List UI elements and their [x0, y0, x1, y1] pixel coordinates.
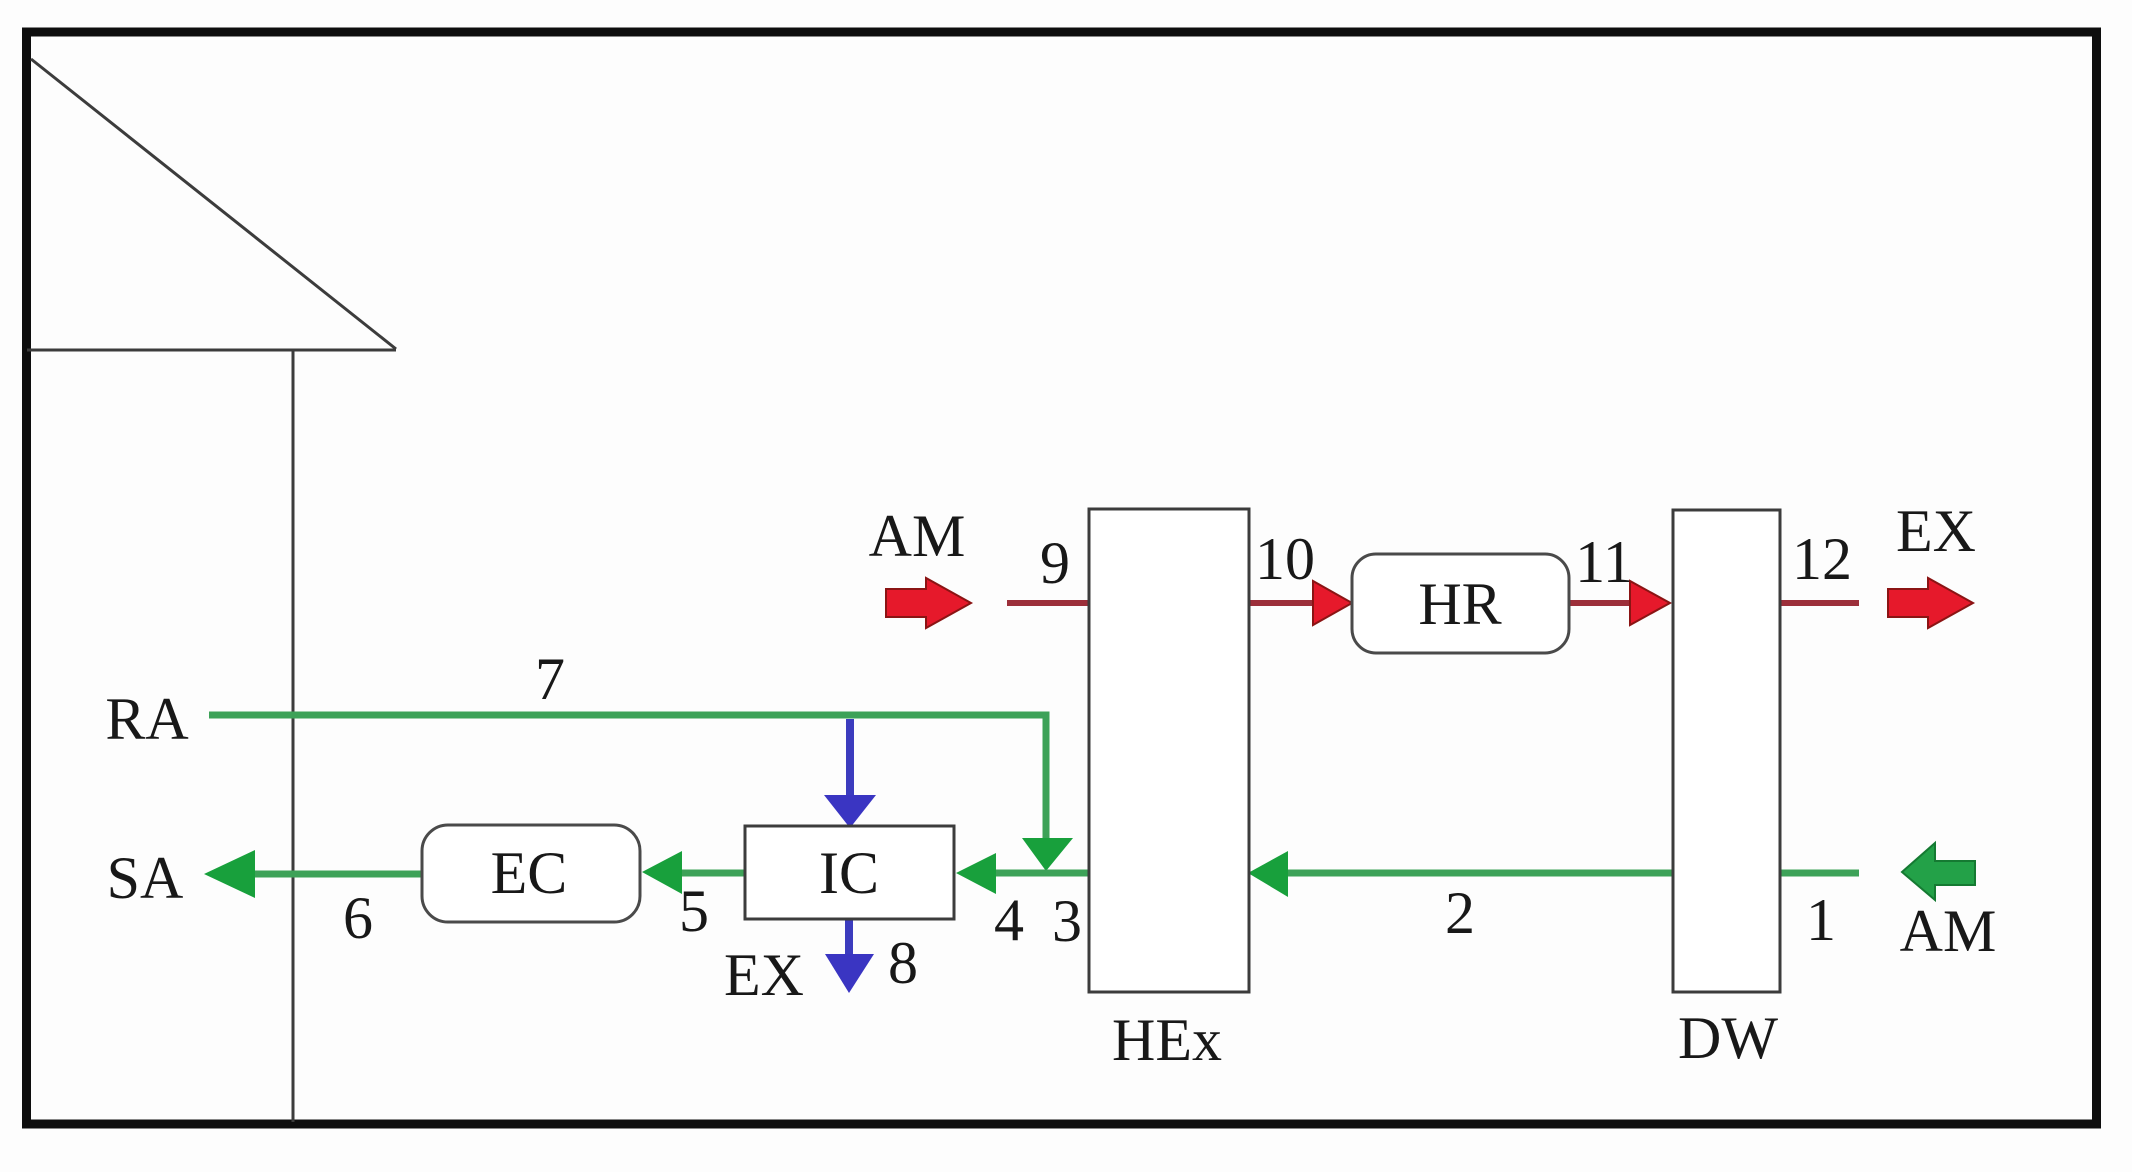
arrowhead 11 into DW (red, right): [1630, 581, 1670, 625]
wire segment 2 (green): [1286, 870, 1674, 877]
svg-text:IC: IC: [819, 840, 879, 906]
wire segment 3-4 (green): [994, 870, 1090, 877]
svg-text:AM: AM: [1900, 898, 1997, 964]
arrowhead 4 into IC (green, left): [956, 853, 996, 894]
desiccant wheel DW box: [1673, 510, 1780, 992]
svg-text:2: 2: [1445, 880, 1475, 946]
svg-text:SA: SA: [107, 845, 184, 911]
arrowhead 5 into EC (green, left): [642, 851, 682, 894]
arrowhead SA (green, left): [204, 850, 255, 898]
svg-text:HR: HR: [1418, 571, 1501, 637]
house wall vertical: [292, 350, 295, 1122]
svg-text:6: 6: [343, 885, 373, 951]
house roof diagonal: [31, 59, 396, 349]
block arrow EX outlet (red, right): [1888, 578, 1973, 628]
wire segment 9 (dark red): [1007, 600, 1090, 606]
heater HR box: [1352, 554, 1569, 653]
indirect cooler IC box: [745, 826, 954, 919]
wire blue segment 8 below IC: [845, 919, 853, 956]
svg-text:11: 11: [1575, 529, 1633, 595]
svg-text:RA: RA: [105, 686, 188, 752]
svg-text:7: 7: [535, 646, 565, 712]
evaporative cooler EC box: [422, 825, 640, 922]
svg-text:HEx: HEx: [1112, 1007, 1222, 1073]
arrowhead 2 into HEx (green, left): [1248, 851, 1288, 897]
svg-text:AM: AM: [869, 503, 966, 569]
house eave horizontal: [27, 349, 396, 352]
arrowhead blue 8 (down): [825, 954, 874, 993]
svg-text:1: 1: [1806, 887, 1836, 953]
wire segment 6 (SA supply, green): [250, 871, 424, 878]
block arrow AM inlet (green, left): [1902, 843, 1975, 900]
svg-text:10: 10: [1255, 526, 1315, 592]
arrowhead 10 into HR (red, right): [1313, 581, 1352, 625]
wire segment 12 (dark red): [1780, 600, 1859, 606]
svg-text:12: 12: [1792, 526, 1852, 592]
wire segment 1 (green): [1780, 870, 1859, 877]
wire blue drop from segment 7 into IC: [846, 719, 854, 797]
block arrow AM inlet top (red, right): [886, 578, 971, 628]
svg-text:4: 4: [994, 887, 1024, 953]
svg-text:8: 8: [888, 930, 918, 996]
wire segment 7 (RA return air, green, with corner drop): [209, 715, 1046, 842]
svg-text:EC: EC: [491, 840, 568, 906]
node arrowhead into junction 3 (green, down): [1022, 838, 1073, 871]
svg-text:EX: EX: [724, 942, 804, 1008]
svg-text:3: 3: [1052, 888, 1082, 954]
wire segment 11 (dark red): [1569, 600, 1632, 606]
heat exchanger HEx box: [1089, 509, 1249, 992]
svg-text:5: 5: [679, 878, 709, 944]
wire segment 5 (green): [676, 870, 747, 877]
svg-text:9: 9: [1040, 530, 1070, 596]
wire segment 10 (dark red): [1248, 600, 1315, 606]
svg-text:DW: DW: [1678, 1005, 1778, 1071]
arrowhead blue into IC top: [824, 795, 876, 828]
svg-text:EX: EX: [1896, 498, 1976, 564]
